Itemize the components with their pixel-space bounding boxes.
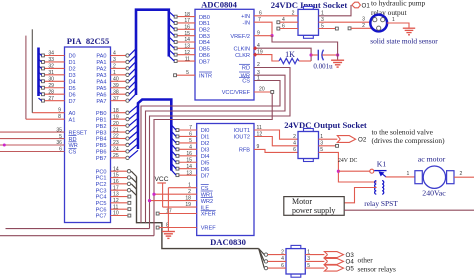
wire to relay contact [338,170,369,172]
J1 24VDC Input Socket title [271,0,348,10]
svg-text:A1: A1 [69,117,76,123]
svg-text:PC1: PC1 [96,176,107,182]
svg-text:CLKR: CLKR [235,53,250,59]
svg-text:A0: A0 [69,111,76,117]
J1.5 stub [319,23,339,30]
svg-text:20: 20 [259,87,265,93]
svg-text:11: 11 [257,125,262,131]
svg-text:RD: RD [242,66,250,72]
svg-text:D0: D0 [69,54,76,60]
svg-text:PC6: PC6 [96,207,107,213]
wire DI1 pin 6 [171,131,196,138]
svg-text:5: 5 [307,263,310,269]
wire CLKR to R1 [254,55,279,61]
svg-text:1: 1 [113,70,116,76]
wire DI3 pin 4 [171,144,196,151]
svg-text:24V DC: 24V DC [338,158,358,164]
svg-text:RFB: RFB [239,148,250,154]
U1 PIA 82C55 chip body [65,47,111,223]
svg-text:PA6: PA6 [96,92,106,98]
ground (sensor) [403,28,415,35]
wire D3 pin 31 [42,70,65,76]
harness PC0-PC3 to J3 (black bundle) [137,177,259,249]
svg-text:33: 33 [48,57,54,63]
svg-text:other: other [358,256,374,265]
wire J3.6 [264,263,286,270]
wire DB6 pin 12 [169,50,195,57]
svg-text:13: 13 [184,44,190,50]
net VCC/VREF pin20 routing [154,87,274,236]
svg-text:2: 2 [257,62,260,68]
pin diamonds CLKIN CLKR [253,46,257,57]
wire RFB to J2.6 [254,144,298,153]
svg-text:30: 30 [48,77,54,83]
svg-text:22: 22 [113,134,119,140]
svg-text:18: 18 [113,108,119,114]
svg-text:21: 21 [113,127,119,133]
bus line 1 (bottom left) [6,228,150,230]
VCC power symbol [155,176,169,207]
U1 pin names RESET RD WR CS [69,130,88,155]
svg-text:28: 28 [48,89,54,95]
svg-text:DI6: DI6 [201,167,210,173]
wire DB0 pin 18 [169,11,195,18]
svg-text:6: 6 [259,11,262,17]
U1 pin names PC0-PC7 [96,169,107,219]
svg-text:INTR: INTR [199,73,212,79]
wire DB3 pin 15 [169,30,195,37]
U3 ctrl pin numbers [166,183,191,229]
svg-text:15: 15 [186,157,192,163]
svg-text:PC2: PC2 [96,182,107,188]
svg-text:XFER: XFER [201,212,216,218]
wire PC7 pin 10 [111,211,131,217]
svg-text:40: 40 [113,77,119,83]
wire DI6 pin 14 [171,164,196,171]
wire J3.3 to flag [305,256,324,262]
svg-text:CS: CS [69,150,77,156]
wire to capacitor [311,54,318,56]
svg-text:1: 1 [257,75,260,81]
svg-text:3: 3 [320,141,323,147]
svg-text:15: 15 [184,31,190,37]
svg-text:13: 13 [113,192,119,198]
svg-text:PB2: PB2 [96,124,107,130]
U1 pin names D0-D7 [69,54,76,105]
U2 pin name INTR [199,72,212,79]
svg-text:5: 5 [321,23,324,29]
svg-text:4: 4 [257,43,260,49]
svg-text:12: 12 [184,50,190,56]
svg-text:19: 19 [113,114,119,120]
svg-text:6: 6 [282,23,285,29]
J3 socket body [286,245,305,277]
svg-text:DAC0830: DAC0830 [210,237,246,247]
wire PA2 pin 2 [111,62,137,71]
wire RESET pin 35 [0,127,65,133]
wire DB1 pin 17 [169,18,195,25]
P1 solid state mold sensor [370,15,438,46]
svg-text:27: 27 [48,96,54,102]
svg-text:IOUT2: IOUT2 [234,135,250,141]
svg-text:31: 31 [48,70,54,76]
wire PB6 pin 24 [111,144,139,153]
svg-text:4: 4 [189,145,192,151]
svg-text:12: 12 [257,131,263,137]
svg-text:PB7: PB7 [96,156,107,162]
wire D1 pin 33 [42,57,65,63]
svg-text:D3: D3 [69,73,76,79]
svg-text:7: 7 [189,125,192,131]
off-page flag O5 [324,265,354,272]
wire J2.1 to O2 flag [319,134,338,140]
wire PB1 pin 19 [111,112,139,121]
wire PB5 pin 23 [111,137,139,146]
svg-text:PC7: PC7 [96,214,107,220]
svg-text:14: 14 [184,37,190,43]
data bus (left of U1) [39,48,42,101]
wire IOUT1 to J2.2 [254,125,298,140]
svg-text:(drives the compression): (drives the compression) [372,136,446,145]
svg-text:relay SPST: relay SPST [364,199,398,208]
wire PC5 pin 12 [111,198,131,204]
svg-text:6: 6 [281,263,284,269]
svg-text:DI4: DI4 [201,154,210,160]
svg-text:16: 16 [113,179,119,185]
svg-text:4: 4 [281,256,284,262]
wire INTR pin 5 [174,70,195,77]
net ADC-CS routing [141,75,280,222]
junction 24V rail to relay contact [337,170,340,173]
wire A0 pin 9 [32,29,64,113]
wire DB7 pin 11 [169,56,195,63]
svg-text:5: 5 [320,147,323,153]
svg-text:13: 13 [186,170,192,176]
wire ILE to VCC [163,206,197,208]
svg-text:39: 39 [113,83,119,89]
wire PC4 pin 13 [111,192,131,198]
wire J1.2 to +IN [254,11,298,23]
relay K1 contact [370,160,387,177]
svg-text:4: 4 [113,51,116,57]
svg-text:to hydraulic pump: to hydraulic pump [371,0,425,7]
harness fan to J3 pins [259,249,265,269]
J2.3 stub [319,141,339,148]
off-page flag O4 [324,258,354,265]
U2 right pin names [222,14,251,96]
svg-text:D2: D2 [69,67,76,73]
svg-text:PIA 82C55: PIA 82C55 [67,36,110,46]
svg-text:DB3: DB3 [199,34,210,40]
wire PC1 pin 15 [111,173,137,183]
bus U1.PA to U2.DB [136,10,169,95]
svg-text:sensor relays: sensor relays [358,264,397,273]
wire J1.3 to sensor pin3 [319,17,371,23]
wire PC6 pin 11 [111,204,131,210]
svg-text:2: 2 [113,64,116,70]
svg-text:PC0: PC0 [96,169,107,175]
J1.6 stub [277,23,298,30]
svg-text:PC3: PC3 [96,188,107,194]
wire DI2 pin 5 [171,138,196,145]
svg-text:DI2: DI2 [201,141,210,147]
wire J3.2 [264,249,286,256]
svg-text:D7: D7 [69,99,76,105]
svg-text:10: 10 [113,211,119,217]
wire PB2 pin 20 [111,118,139,127]
svg-text:DI7: DI7 [201,173,210,179]
svg-text:4: 4 [293,141,296,147]
bus U1.PB to U3.DI [138,100,171,171]
svg-text:PB5: PB5 [96,143,107,149]
M1 ac motor [415,155,454,198]
U3 title DAC0830 [210,237,246,247]
wire PC2 pin 16 [111,179,137,189]
svg-text:PA7: PA7 [96,99,106,105]
svg-text:3: 3 [307,256,310,262]
svg-text:PB4: PB4 [96,137,107,143]
svg-text:PB1: PB1 [96,117,107,123]
svg-text:DB6: DB6 [199,53,210,59]
svg-text:12: 12 [113,198,119,204]
off-page flag O1 [352,0,426,17]
wire DI0 pin 7 [171,125,196,132]
svg-text:2: 2 [281,249,284,255]
svg-text:14: 14 [113,166,119,172]
svg-text:16: 16 [184,25,190,31]
svg-text:240Vac: 240Vac [422,189,446,198]
svg-text:DB5: DB5 [199,47,210,53]
svg-text:O2: O2 [358,137,367,144]
U3 right pin names IOUT1 IOUT2 RFB [234,128,251,153]
svg-text:3: 3 [321,17,324,23]
svg-text:DB7: DB7 [199,59,210,65]
VREF stub [156,226,197,229]
wire D6 pin 28 [42,89,65,95]
svg-text:PA3: PA3 [96,73,106,79]
svg-text:DI0: DI0 [201,128,210,134]
wire PA6 pin 38 [111,87,137,96]
wire DI7 pin 13 [171,170,196,177]
wire DB2 pin 16 [169,24,195,31]
svg-text:PA0: PA0 [96,54,106,60]
wire PB7 pin 25 [111,150,139,159]
J2 socket body [298,129,319,162]
svg-text:DB1: DB1 [199,21,210,27]
svg-text:8: 8 [58,114,61,120]
svg-text:WR2: WR2 [201,199,213,205]
svg-text:DI5: DI5 [201,160,210,166]
wire DAC WR2 to RD net [148,199,197,202]
wire coil to motor power supply [344,188,376,203]
wire J3.4 [264,256,286,263]
XFER stub [156,212,197,215]
svg-text:+IN: +IN [241,14,250,20]
wire CLKIN net [254,43,311,61]
svg-text:3: 3 [257,70,260,76]
svg-text:37: 37 [113,96,119,102]
svg-text:D5: D5 [69,86,76,92]
svg-text:VCC/VREF: VCC/VREF [222,90,251,96]
wire PB4 pin 22 [111,131,139,140]
wire PB3 pin 21 [111,125,139,134]
svg-text:-IN: -IN [243,20,250,26]
U1 pin names PA0-PA7 [96,54,106,105]
svg-text:D6: D6 [69,92,76,98]
svg-text:PA4: PA4 [96,80,106,86]
net -IN/VREF2 to ground [254,22,338,60]
wire motor return [344,209,474,211]
svg-text:1: 1 [407,171,410,177]
svg-text:34: 34 [48,51,54,57]
wire PC3 pin 17 [111,185,137,195]
svg-text:IOUT1: IOUT1 [234,128,250,134]
svg-text:9: 9 [257,144,260,150]
wire DAC CS to ground [168,188,196,232]
svg-text:PB0: PB0 [96,111,107,117]
wire DB5 pin 13 [169,43,195,50]
J2 24VDC Output Socket title [284,120,367,130]
J1.4 stub [277,17,298,24]
svg-text:29: 29 [48,83,54,89]
svg-text:0.001u: 0.001u [313,62,333,70]
wire DI5 pin 15 [171,157,196,164]
svg-text:O1: O1 [362,2,371,9]
wire PC0 pin 14 [111,166,137,176]
U1 pin names A0 A1 [69,111,76,124]
svg-text:24VDC Output Socket: 24VDC Output Socket [284,120,367,130]
wire DI4 pin 16 [171,151,196,158]
svg-text:5: 5 [59,134,62,140]
stub to sensor pin2 [348,23,371,30]
svg-text:5: 5 [189,138,192,144]
svg-text:23: 23 [113,140,119,146]
svg-text:2: 2 [293,134,296,140]
svg-text:solid state mold sensor: solid state mold sensor [370,37,438,46]
J1 socket body [298,6,319,38]
svg-text:PB6: PB6 [96,150,107,156]
svg-text:PC5: PC5 [96,201,107,207]
wire J2.5 24VDC rail [319,147,377,182]
wire DAC WR1 to net [152,193,196,196]
junction CLKIN/R1/C1 [310,53,313,56]
motor power supply box [284,197,344,216]
wire DB4 pin 14 [169,37,195,44]
svg-text:38: 38 [113,89,119,95]
svg-text:15: 15 [113,173,119,179]
svg-text:PC4: PC4 [96,195,107,201]
svg-text:VREF: VREF [201,226,217,232]
svg-text:CLKIN: CLKIN [234,46,250,52]
svg-text:3: 3 [113,57,116,63]
U3 pin names CS WR1 WR2 ILE XFER VREF [201,185,217,232]
svg-text:1: 1 [307,249,310,255]
U2 pin names DB0-DB7 [199,15,210,65]
wire D0 pin 34 [42,51,65,57]
wire RD pin 5 [0,134,65,140]
wire D7 pin 27 [42,96,65,102]
svg-text:2: 2 [292,11,295,17]
svg-text:ADC0804: ADC0804 [201,0,238,10]
svg-text:6: 6 [189,132,192,138]
wire J1.1 to O1 flag [319,5,352,17]
svg-text:36: 36 [56,140,62,146]
svg-text:6: 6 [59,147,62,153]
wire PA0 pin 4 [111,49,137,58]
CLKR VREF2 pin numbers [257,30,263,55]
wire PA4 pin 40 [111,75,137,84]
svg-text:power supply: power supply [292,206,335,215]
wire J3.1 to flag [305,249,324,255]
U1 title PIA 82C55 [67,36,110,46]
svg-text:ac motor: ac motor [418,155,446,164]
off-page flag O3 [324,252,354,259]
svg-text:25: 25 [113,153,119,159]
svg-text:DB4: DB4 [199,40,210,46]
U3 DAC0830 chip body [197,124,254,236]
resistor R1 1K [279,50,311,64]
svg-text:2: 2 [460,171,463,177]
svg-text:17: 17 [113,185,119,191]
svg-text:20: 20 [113,121,119,127]
wire D4 pin 30 [42,77,65,83]
svg-text:PA1: PA1 [96,60,106,66]
net ADC-WR routing [146,70,286,223]
svg-text:6: 6 [293,147,296,153]
svg-text:9: 9 [58,108,61,114]
wire PB0 pin 18 [111,105,139,114]
svg-text:1: 1 [321,11,324,17]
svg-text:DI3: DI3 [201,148,210,154]
svg-text:K1: K1 [377,160,387,169]
relay K1 coil [364,181,398,208]
svg-text:D1: D1 [69,60,76,66]
svg-text:VREF/2: VREF/2 [230,34,250,40]
svg-text:3: 3 [362,17,365,23]
U2 ADC0804 chip body [195,9,254,100]
wire relay to motor [386,171,415,177]
ground (RC filter) [331,60,344,67]
svg-text:1: 1 [320,134,323,140]
svg-text:16: 16 [186,151,192,157]
wire D2 pin 32 [42,64,65,70]
U1 pin names PB0-PB7 [96,111,107,162]
wire C1 to ground junction [322,53,339,56]
wire WR pin 36 [0,140,65,146]
wire A1 pin 8 [26,36,65,120]
svg-text:11: 11 [185,56,190,62]
svg-text:DB2: DB2 [199,28,210,34]
svg-text:14: 14 [186,164,192,170]
svg-text:VCC: VCC [155,176,169,183]
off-page flag O2 [337,128,445,145]
svg-text:DB0: DB0 [199,15,210,21]
svg-text:CS: CS [242,79,250,85]
wire PA1 pin 3 [111,55,137,64]
wire motor pin2 [454,171,474,177]
svg-text:32: 32 [48,64,54,70]
wire J3.5 to flag [305,263,324,269]
U2 title ADC0804 [201,0,238,10]
svg-text:O5: O5 [346,265,355,272]
svg-text:2: 2 [362,23,365,29]
wire D5 pin 29 [42,83,65,89]
net ADC-RD routing [150,62,291,228]
svg-text:4: 4 [282,17,285,23]
junction on WR wire [3,144,6,147]
svg-text:5: 5 [186,70,189,76]
svg-text:11: 11 [113,204,118,210]
